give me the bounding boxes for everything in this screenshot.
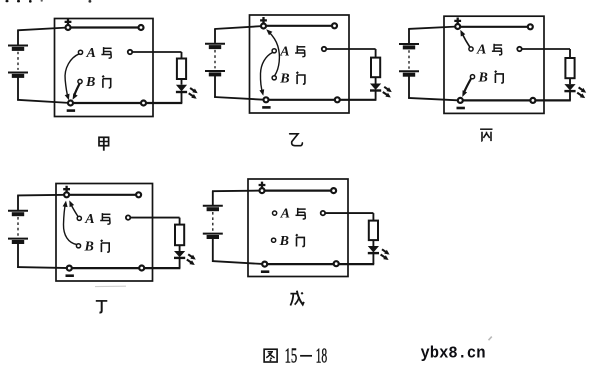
logic module box (jia) <box>55 19 154 117</box>
wire lamp branch resistor to LED <box>181 79 183 85</box>
wire lamp branch LED to bottom <box>375 90 377 100</box>
switch arm B to + (arc) <box>63 204 77 245</box>
terminal node A <box>273 211 277 215</box>
terminal node B <box>78 79 82 83</box>
LED D (jia) <box>176 85 187 92</box>
terminal node + <box>260 188 265 193</box>
wire battery top lead <box>212 191 214 205</box>
svg-text:B: B <box>84 239 94 254</box>
battery cell 2 negative plate <box>209 72 221 76</box>
battery cell 1 positive plate <box>205 43 225 45</box>
wire lamp branch vertical top <box>179 218 181 225</box>
LED light emission arrows <box>382 249 388 253</box>
wire output node to lamp branch <box>128 217 180 219</box>
terminal node B <box>470 75 474 79</box>
terminal node + <box>261 24 266 29</box>
battery cell 1 negative plate <box>12 47 24 51</box>
wire battery bottom lead <box>17 244 19 268</box>
output node <box>126 215 130 219</box>
label - <box>457 107 465 110</box>
wire lamp branch resistor to LED <box>375 77 377 83</box>
terminal node top-right <box>332 23 337 28</box>
terminal node B <box>76 244 80 248</box>
resistor R (jia) <box>177 59 186 80</box>
output node <box>321 211 325 215</box>
battery dashed continuation <box>17 52 19 70</box>
wire battery bottom lead <box>17 77 19 100</box>
terminal node + <box>66 25 71 30</box>
switch arm A to + (line) <box>71 205 78 217</box>
terminal node bottom-right <box>335 97 340 102</box>
battery cell 2 negative plate <box>12 240 24 244</box>
wire top internal (+ to top-right node) <box>458 26 531 28</box>
svg-text:A: A <box>86 46 96 61</box>
label - <box>262 106 270 109</box>
terminal node bottom-right <box>139 266 144 271</box>
wire battery bottom lead <box>408 76 410 99</box>
caption glyph tu <box>264 349 277 362</box>
terminal node A <box>77 216 81 220</box>
terminal node top-right <box>139 25 144 30</box>
caption dash <box>300 355 312 357</box>
logic module box (bing) <box>444 16 544 113</box>
wire lamp branch LED to bottom <box>179 257 181 268</box>
label yu (AND) <box>100 213 110 224</box>
terminal node - <box>458 98 463 103</box>
battery cell 1 positive plate <box>8 45 28 47</box>
resistor R (wu) <box>369 221 378 241</box>
wire output node to lamp branch <box>130 51 182 53</box>
wire battery bottom to - terminal <box>408 98 460 101</box>
wire battery bottom to - terminal <box>214 97 266 100</box>
LED D (yi) <box>370 84 381 90</box>
LED D (ding) <box>174 251 185 257</box>
battery cell 1 negative plate <box>209 45 221 49</box>
logic module box (yi) <box>250 15 350 113</box>
battery cell 2 positive plate <box>203 233 223 235</box>
wire battery top lead <box>17 195 19 210</box>
wire lamp branch LED to bottom <box>569 91 571 101</box>
LED light emission arrows <box>384 87 390 91</box>
wire battery bottom to - terminal <box>17 100 70 103</box>
terminal node - <box>67 266 72 271</box>
label men (gate) <box>495 71 503 83</box>
wire output node to lamp branch <box>324 48 376 50</box>
label men (gate) <box>296 234 304 246</box>
label ding <box>96 301 108 313</box>
terminal node B <box>272 238 276 242</box>
wire bottom internal (- to bottom-right node and out to lamp branch) <box>69 267 180 269</box>
terminal node - <box>264 97 269 102</box>
wire lamp branch resistor to LED <box>372 240 374 246</box>
wire battery top to + terminal <box>214 26 263 29</box>
wire top internal (+ to top-right node) <box>264 25 335 27</box>
svg-text:A: A <box>84 212 94 227</box>
svg-text:B: B <box>279 71 289 86</box>
svg-text:18: 18 <box>316 343 328 367</box>
battery cell 2 negative plate <box>207 235 219 239</box>
LED D (wu) <box>368 246 379 253</box>
LED light emission arrows <box>579 87 585 91</box>
wire battery top lead <box>408 29 410 43</box>
label + <box>454 18 461 25</box>
svg-text:B: B <box>85 75 95 90</box>
wire lamp branch vertical top <box>372 213 374 221</box>
switch arm B to - (arc) <box>74 84 79 96</box>
label wu <box>290 291 303 306</box>
svg-text:B: B <box>279 234 289 249</box>
LED light emission arrows <box>190 88 196 92</box>
terminal node + <box>64 192 69 197</box>
battery dashed continuation <box>408 50 410 68</box>
label - <box>261 270 269 273</box>
terminal node top-right <box>331 188 336 193</box>
faint scan streak <box>95 285 126 287</box>
label yu (AND) <box>296 208 306 219</box>
svg-text:B: B <box>478 70 488 85</box>
resistor R (bing) <box>565 58 574 78</box>
wire output node to lamp branch <box>520 48 571 50</box>
battery cell 1 positive plate <box>8 210 28 212</box>
output node <box>322 47 326 51</box>
svg-text:15: 15 <box>285 343 298 367</box>
label men (gate) <box>103 76 111 88</box>
wire battery bottom to - terminal <box>17 267 69 268</box>
switch arm A to - (arc) <box>65 54 79 98</box>
wire output node to lamp branch <box>323 212 374 214</box>
battery dashed continuation <box>212 212 214 231</box>
label + <box>65 19 72 26</box>
label yu (AND) <box>295 46 305 57</box>
terminal node - <box>262 262 267 267</box>
wire battery top lead <box>17 30 19 44</box>
svg-text:A: A <box>476 43 486 58</box>
terminal node bottom-right <box>334 261 339 266</box>
wire battery top lead <box>214 29 216 43</box>
battery cell 1 negative plate <box>403 45 415 49</box>
label + <box>259 182 266 189</box>
label yu (AND) <box>101 47 111 58</box>
battery dashed continuation <box>214 50 216 69</box>
label - <box>66 274 74 277</box>
switch arm B to + (arc) <box>269 32 280 76</box>
label bing <box>480 129 492 141</box>
label yu (AND) <box>492 44 502 55</box>
battery cell 1 positive plate <box>399 43 419 45</box>
battery cell 1 negative plate <box>207 207 219 211</box>
wire lamp branch LED to bottom <box>372 253 374 265</box>
output node <box>517 47 521 51</box>
label jia (A circuit) <box>99 137 109 150</box>
label - <box>67 109 75 112</box>
wire battery top to + terminal <box>212 190 262 193</box>
battery cell 1 positive plate <box>203 205 223 207</box>
svg-text:ybx8.cn: ybx8.cn <box>421 343 486 362</box>
battery cell 2 positive plate <box>8 72 28 74</box>
wire battery top to + terminal <box>17 194 66 197</box>
LED D (bing) <box>564 84 575 90</box>
terminal node A <box>272 49 276 53</box>
battery cell 1 negative plate <box>12 212 24 216</box>
LED light emission arrows <box>188 254 194 258</box>
terminal node A <box>78 50 82 54</box>
svg-text:A: A <box>279 44 289 59</box>
wire battery top to + terminal <box>408 27 458 29</box>
cut-off text fragments at top edge <box>6 0 9 2</box>
label men (gate) <box>297 72 305 84</box>
wire bottom internal (- to bottom-right node and out to lamp branch) <box>266 99 376 101</box>
battery cell 2 negative plate <box>12 74 24 78</box>
label + <box>260 17 267 24</box>
battery dashed continuation <box>17 217 19 236</box>
logic module box (ding) <box>56 184 153 282</box>
wire lamp branch LED to bottom <box>181 91 183 103</box>
wire lamp branch resistor to LED <box>179 245 181 251</box>
switch arm A to - (arc) <box>260 53 272 94</box>
resistor R (yi) <box>371 58 380 78</box>
wire battery bottom lead <box>212 239 214 262</box>
wire top internal (+ to top-right node) <box>67 194 139 196</box>
wire bottom internal (- to bottom-right node and out to lamp branch) <box>265 263 375 265</box>
wire bottom internal (- to bottom-right node and out to lamp branch) <box>460 99 571 101</box>
wire lamp branch resistor to LED <box>569 78 571 84</box>
svg-text:A: A <box>280 207 290 222</box>
battery cell 2 positive plate <box>205 70 225 72</box>
wire lamp branch vertical top <box>569 49 571 58</box>
wire top internal (+ to top-right node) <box>262 190 334 192</box>
wire lamp branch vertical top <box>375 49 377 58</box>
wire battery bottom lead <box>214 76 216 98</box>
label + <box>63 186 70 193</box>
terminal node bottom-right <box>141 101 146 106</box>
battery cell 2 negative plate <box>403 73 415 77</box>
terminal node bottom-right <box>530 98 535 103</box>
wire lamp branch vertical top <box>181 52 183 59</box>
terminal node A <box>469 47 473 51</box>
battery cell 2 positive plate <box>8 238 28 240</box>
terminal node B <box>272 76 276 80</box>
faint scan mark <box>489 337 492 341</box>
resistor R (ding) <box>175 225 184 246</box>
output node <box>128 50 132 54</box>
terminal node top-right <box>528 24 533 29</box>
switch arm B to - - <box>464 79 471 92</box>
logic module box (wu) <box>248 179 348 277</box>
terminal node - <box>68 101 73 106</box>
wire battery top to + terminal <box>17 28 68 31</box>
label men (gate) <box>101 240 109 252</box>
wire top internal (+ to top-right node) <box>68 26 141 28</box>
terminal node + <box>455 24 460 29</box>
wire battery bottom to - terminal <box>212 261 265 264</box>
terminal node top-right <box>136 192 141 197</box>
battery cell 2 positive plate <box>399 70 419 72</box>
wire bottom internal (- to bottom-right node and out to lamp branch) <box>71 102 183 104</box>
label yi <box>290 134 303 146</box>
switch arm A to + - <box>463 35 470 48</box>
